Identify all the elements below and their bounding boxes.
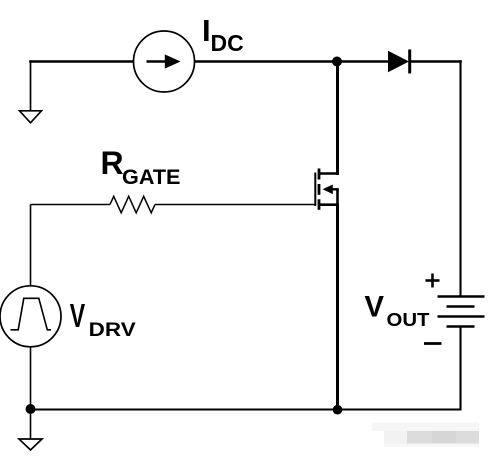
wire top rail left segment bbox=[29, 60, 133, 63]
diode D1 bbox=[388, 51, 409, 72]
resistor R_GATE bbox=[110, 196, 155, 213]
voltage source V_DRV circle bbox=[0, 286, 61, 347]
watermark bbox=[372, 423, 479, 448]
channel segment 1 bbox=[318, 169, 321, 180]
svg-text:R: R bbox=[101, 145, 124, 181]
wire gate left segment bbox=[31, 204, 111, 206]
label + bbox=[426, 274, 440, 288]
svg-text:I: I bbox=[202, 13, 211, 48]
current source I_DC circle bbox=[134, 31, 195, 92]
svg-text:V: V bbox=[70, 297, 85, 334]
wire junction to diode bbox=[337, 60, 389, 63]
body-source vertical bbox=[336, 189, 339, 204]
svg-text:OUT: OUT bbox=[387, 310, 430, 330]
wire diode to corner bbox=[410, 60, 462, 63]
svg-text:DRV: DRV bbox=[89, 320, 136, 341]
channel segment 3 bbox=[318, 199, 321, 210]
wire gate right segment bbox=[155, 204, 316, 206]
ground GND2 bottom-left bbox=[30, 410, 32, 440]
label minus bbox=[424, 342, 442, 345]
wire right vertical top bbox=[459, 60, 461, 296]
svg-text:V: V bbox=[365, 291, 385, 324]
wire drain vertical bbox=[336, 62, 339, 176]
svg-text:GATE: GATE bbox=[122, 165, 181, 189]
ground GND1 top-left bbox=[20, 111, 42, 123]
gate bar bbox=[314, 173, 316, 207]
wire top-left corner vertical bbox=[30, 60, 32, 111]
battery V_OUT bbox=[438, 297, 485, 327]
wire bottom rail bbox=[31, 409, 461, 411]
node junction top bbox=[332, 57, 342, 67]
current source arrow bbox=[147, 60, 169, 63]
pulse waveform bbox=[11, 298, 52, 330]
channel segment 2 bbox=[318, 184, 321, 195]
node junction bottom-left bbox=[26, 404, 36, 414]
body arrowhead bbox=[323, 185, 333, 195]
wire left vertical upper bbox=[30, 205, 32, 287]
node junction bottom-middle bbox=[333, 405, 343, 415]
wire source vertical bbox=[336, 205, 339, 410]
svg-text:DC: DC bbox=[211, 30, 244, 56]
transistor Q1 MOSFET bbox=[315, 169, 339, 210]
body arrow wire bbox=[326, 188, 339, 190]
source stub bbox=[319, 203, 339, 206]
drain stub bbox=[319, 172, 339, 175]
wire left vertical lower bbox=[30, 347, 32, 410]
wire top rail mid segment bbox=[195, 60, 338, 63]
wire right vertical bottom bbox=[459, 327, 461, 411]
